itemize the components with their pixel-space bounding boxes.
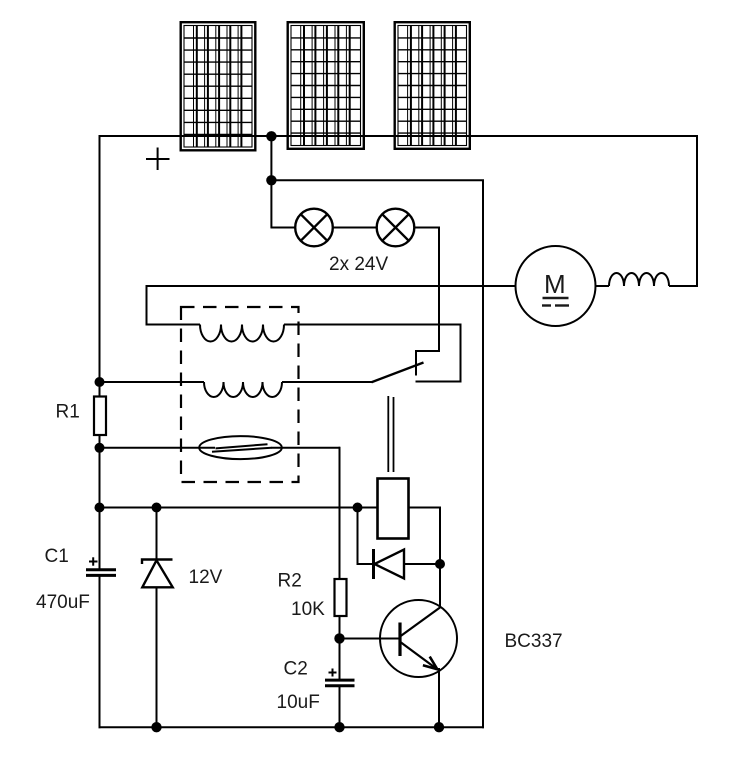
wire: reed wire right [271, 447, 340, 449]
svg-text:R2: R2 [278, 571, 302, 592]
wire: node A to lamp feed [271, 179, 484, 181]
wire: motor left lead [147, 285, 516, 287]
capacitor C2 [325, 669, 355, 686]
wire: zener drop [156, 508, 158, 560]
wire: bottom rail [99, 726, 485, 728]
switch blade [372, 363, 424, 383]
wire: relay coil right lead [409, 508, 440, 609]
svg-text:C2: C2 [284, 659, 308, 680]
lamp L1 [295, 209, 333, 247]
node: Q1 base node [334, 633, 344, 643]
node: zener top [152, 503, 162, 513]
wire: emitter to bottom rail [438, 668, 440, 727]
resistor R2 [335, 579, 347, 616]
wire: diode left lead [357, 563, 374, 565]
wire: lamp L2 to switch contact drop [414, 227, 440, 229]
resistor R1 [94, 397, 106, 436]
wire: coil1 to lower fixed contact [284, 324, 461, 326]
wire: coil2 to switch pivot [282, 381, 372, 383]
zener diode D1 12V [142, 560, 173, 588]
motor M1 [516, 246, 596, 326]
wire: R2 to base node [339, 616, 341, 639]
relay K1 dashed enclosure [181, 307, 299, 482]
node: emitter/bottom rail [434, 722, 444, 732]
lamp L2 [377, 209, 415, 247]
svg-text:R1: R1 [56, 402, 80, 423]
wire: lower fixed contact hook [416, 324, 461, 382]
node: 12V rail/left rail [95, 503, 105, 513]
wire: switch upper fixed contact hook [416, 351, 439, 376]
node: zener bottom [151, 722, 161, 732]
wire: drop from top bus to lamps [270, 136, 272, 228]
svg-text:M: M [544, 269, 566, 299]
node A: lamp feed junction [266, 175, 276, 185]
svg-text:10K: 10K [291, 599, 325, 620]
flyback diode D2 [374, 549, 405, 579]
solar panel PV2 [288, 22, 364, 149]
svg-text:2x 24V: 2x 24V [329, 254, 388, 275]
wire: zener to bottom rail [156, 588, 158, 728]
wire: drop to switch fixed contact [438, 227, 440, 353]
solar panel PV3 [395, 22, 470, 149]
relay armature link (double line) [388, 396, 393, 472]
wire: right drop from lamp feed node [482, 180, 484, 728]
node: coil2/left rail [95, 377, 105, 387]
wire: lamp L1 to lamp L2 [333, 227, 378, 229]
wire: left rail C1 to bottom [99, 576, 101, 728]
svg-text:470uF: 470uF [36, 592, 90, 613]
wire: reed wire left [100, 447, 216, 449]
svg-text:BC337: BC337 [505, 631, 563, 652]
wire: C2 to bottom rail [339, 686, 341, 727]
transistor Q1 BC337 [340, 600, 458, 677]
svg-text:C1: C1 [45, 546, 69, 567]
solar panel PV1 [181, 22, 256, 150]
reed switch (inside relay) [199, 436, 282, 459]
node: diode branch [353, 503, 363, 513]
wire: diode right lead [404, 563, 440, 565]
capacitor C1 [86, 557, 116, 575]
wire: base node to C2 [339, 638, 341, 680]
svg-text:10uF: 10uF [277, 692, 320, 713]
relay coil K1b [204, 382, 282, 397]
node: reed/left rail [95, 443, 105, 453]
node: top bus junction [266, 131, 276, 141]
wire: drop reed to R2 [339, 447, 341, 579]
relay coil K1a [200, 325, 284, 342]
node: + terminal mark [146, 148, 170, 171]
svg-text:12V: 12V [189, 567, 223, 588]
wire: drop from motor lead to relay coil 1 [146, 285, 148, 325]
node: diode/coil right [435, 559, 445, 569]
node: C2 bottom [334, 722, 344, 732]
inductor L1 [596, 285, 610, 287]
relay coil box [378, 479, 409, 539]
wire: middle coil wire from left rail [100, 381, 205, 383]
wire: 12V supply rail y=507 [100, 507, 378, 509]
wire: left rail top segment [99, 135, 101, 397]
wire: to lamp L1 [271, 227, 296, 229]
wire: top positive bus [99, 135, 698, 137]
wire: left rail R1 to C1 [99, 435, 101, 569]
wire: relay coil1 entry [146, 324, 201, 326]
wire: right rail down to inductor [696, 135, 698, 286]
wire: diode branch drop [357, 508, 359, 565]
